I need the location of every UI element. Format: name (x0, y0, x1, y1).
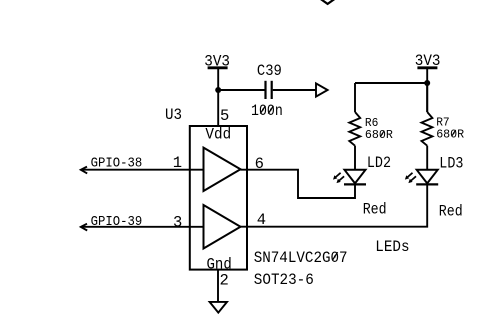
ground (partial, top edge) (320, 0, 336, 4)
svg-text:100n: 100n (251, 102, 283, 120)
buffer triangle A (204, 148, 241, 191)
svg-text:680R: 680R (365, 128, 393, 142)
svg-text:GPIO-39: GPIO-39 (91, 215, 143, 230)
node junction (3V3/C39/pin5) (215, 87, 221, 93)
svg-text:680R: 680R (436, 127, 464, 141)
svg-text:5: 5 (220, 107, 229, 125)
GPIO-39 arrowhead (81, 224, 87, 231)
svg-text:2: 2 (220, 272, 229, 290)
wire GPIO-38 input (81, 169, 204, 171)
power symbol 3V3 (left) (204, 52, 230, 70)
wire R7 to LD3 anode (426, 146, 428, 170)
capacitor C39 100n (251, 62, 283, 120)
wire junction to R6 branch (355, 82, 427, 84)
svg-text:U3: U3 (165, 106, 182, 124)
LED LD3 (405, 155, 464, 185)
buffer triangle B (204, 205, 241, 249)
svg-text:Red: Red (439, 202, 463, 220)
svg-text:LD3: LD3 (439, 155, 463, 173)
wire junction to C39 (218, 89, 264, 91)
svg-text:Red: Red (363, 201, 387, 219)
wire pin 6 to LD2 cathode (241, 170, 356, 198)
svg-text:SOT23-6: SOT23-6 (254, 271, 314, 289)
svg-text:LD2: LD2 (367, 154, 391, 172)
LED LD2 (333, 154, 391, 184)
svg-text:C39: C39 (257, 62, 282, 80)
node junction (3V3/R6/R7) (424, 80, 430, 86)
wire down to R7 (426, 83, 428, 112)
wire C39 to power flag (273, 89, 316, 91)
wire pin 2 to ground (217, 270, 219, 302)
wire GPIO-39 input (81, 226, 204, 228)
power flag arrow (316, 83, 328, 96)
svg-text:LEDs: LEDs (375, 238, 409, 256)
power symbol 3V3 (right) (415, 52, 441, 70)
svg-text:GPIO-38: GPIO-38 (91, 157, 143, 172)
wire 3V3 bar to pin 5 (217, 68, 219, 127)
resistor R7 680R (422, 112, 465, 146)
svg-text:Vdd: Vdd (205, 126, 231, 144)
svg-text:3: 3 (173, 214, 182, 232)
op-amp U3 body (buffer IC box) (190, 126, 247, 270)
resistor R6 680R (349, 112, 393, 146)
ground (bottom) (210, 302, 227, 313)
wire R6 to LD2 anode (354, 146, 356, 170)
wire 3V3 bar to R7 (426, 68, 428, 112)
GPIO-38 arrowhead (81, 167, 87, 174)
wire down to R6 (354, 83, 356, 112)
wire pin 4 to LD3 cathode (241, 184, 428, 226)
